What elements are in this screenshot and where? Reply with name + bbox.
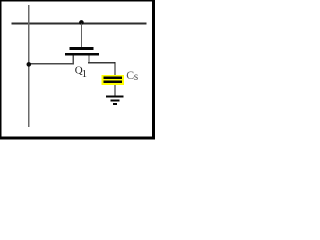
- ground bar 1: [106, 96, 123, 98]
- wire: Q1 drain lead vertical drop: [88, 56, 89, 63]
- border frame bottom: [0, 137, 155, 140]
- wire: Q1 source lead vertical drop: [73, 56, 74, 64]
- capacitor Cs bottom plate: [103, 80, 122, 83]
- ground bar 3: [113, 103, 117, 105]
- wire: word line (top horizontal): [12, 23, 147, 25]
- border frame left: [0, 0, 2, 140]
- ground bar 2: [110, 99, 119, 101]
- capacitor Cs yellow highlight: [101, 75, 124, 85]
- node: word line to gate junction: [79, 20, 84, 25]
- capacitor Cs top plate: [103, 76, 122, 79]
- transistor Q1 channel bar: [65, 53, 99, 56]
- wire: bit line (left vertical): [28, 5, 29, 127]
- border frame right: [152, 0, 155, 140]
- svg-text:1: 1: [82, 69, 87, 80]
- wire: capacitor top lead vertical: [114, 62, 115, 76]
- border frame top: [0, 0, 155, 2]
- svg-text:s: s: [134, 71, 139, 83]
- wire: gate lead (vertical from word line): [81, 23, 82, 47]
- node: bit line to source junction: [27, 62, 32, 67]
- wire: capacitor bottom lead to ground: [114, 85, 115, 96]
- wire: Q1 source lead horizontal to bit line: [28, 63, 74, 65]
- wire: Q1 drain lead horizontal: [88, 62, 116, 64]
- transistor Q1 gate bar: [70, 47, 94, 50]
